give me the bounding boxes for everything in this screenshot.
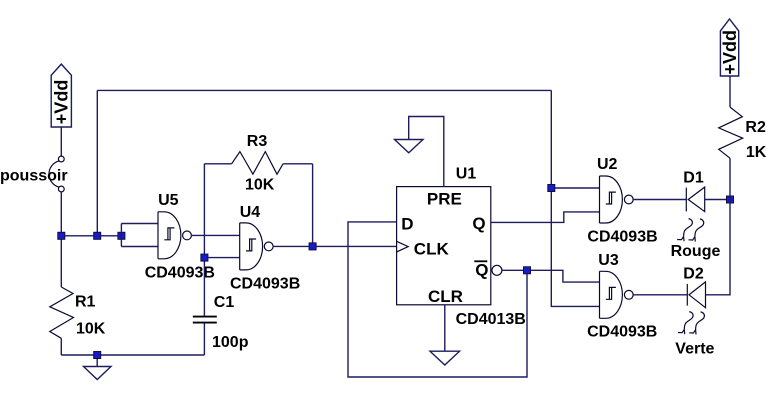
svg-text:U3: U3 <box>598 252 619 269</box>
resistor R1 <box>50 236 106 355</box>
pin Qbar bubble <box>492 265 502 275</box>
svg-text:Q: Q <box>475 261 488 280</box>
led D2 <box>683 265 705 307</box>
ground PRE <box>395 140 424 153</box>
wire R3 right drop <box>312 164 314 247</box>
led D1 light arrows <box>677 219 703 242</box>
wire U2 upper input stub <box>551 187 599 189</box>
svg-text:CD4093B: CD4093B <box>587 323 657 340</box>
push button poussoir <box>49 156 64 192</box>
svg-text:1K: 1K <box>746 144 766 161</box>
wire PRE to ground <box>409 117 444 187</box>
ground (bottom left) <box>84 355 112 380</box>
wire <box>121 246 158 248</box>
pin CLK edge triangle <box>397 241 409 252</box>
svg-text:Q: Q <box>472 214 485 233</box>
wire D1 anode to rail <box>705 199 730 201</box>
nand gate U4 (CD4093B) <box>230 204 300 292</box>
power symbol +Vdd (right) <box>720 19 740 76</box>
wire U3 output to D2 <box>632 294 687 296</box>
nand gate U3 (CD4093B) <box>587 252 657 340</box>
node main-U5 input <box>118 232 125 239</box>
led D1 <box>683 169 704 211</box>
node top-rail to U2 junction <box>548 185 555 192</box>
capacitor C1 <box>193 294 249 355</box>
wire <box>120 224 122 247</box>
svg-text:CD4093B: CD4093B <box>587 228 657 245</box>
resistor R3 <box>204 133 312 194</box>
node U4out-R3 junction <box>309 243 316 250</box>
wire button to main node <box>60 192 62 236</box>
svg-text:10K: 10K <box>245 177 275 194</box>
node main-button <box>58 232 65 239</box>
svg-text:poussoir: poussoir <box>0 167 68 184</box>
wire CLR to ground <box>444 305 446 351</box>
svg-text:CLK: CLK <box>414 240 450 259</box>
svg-text:CD4013B: CD4013B <box>456 311 526 328</box>
node Qbar-feedback junction <box>524 267 531 274</box>
svg-text:10K: 10K <box>76 321 106 338</box>
svg-text:C1: C1 <box>214 294 235 311</box>
node main-riser <box>94 232 101 239</box>
svg-text:+Vdd: +Vdd <box>52 80 72 125</box>
nand gate U2 (CD4093B) <box>587 156 657 245</box>
svg-text:U5: U5 <box>158 192 179 209</box>
svg-text:CLR: CLR <box>428 287 463 306</box>
wire R3/C1 vertical <box>203 164 205 317</box>
wire Vdd to button <box>60 127 62 156</box>
svg-text:R1: R1 <box>75 294 96 311</box>
wire U4 output to CLK <box>273 245 397 247</box>
svg-text:U1: U1 <box>456 165 477 182</box>
svg-text:Verte: Verte <box>675 341 714 358</box>
wire top rail <box>97 89 551 91</box>
wire Qbar-to-D feedback <box>348 222 527 377</box>
power symbol +Vdd (left) <box>51 64 71 127</box>
svg-text:D1: D1 <box>683 169 704 186</box>
svg-text:U4: U4 <box>240 204 261 221</box>
svg-text:D2: D2 <box>683 265 704 282</box>
svg-text:D: D <box>401 214 413 233</box>
node rail-D1 junction <box>727 196 734 203</box>
svg-text:Rouge: Rouge <box>671 243 721 260</box>
wire U5 output <box>191 234 240 236</box>
wire Q output <box>491 212 600 223</box>
wire U2 output to D1 <box>632 199 686 201</box>
wire right drop of top rail <box>551 90 599 306</box>
svg-text:PRE: PRE <box>427 189 462 208</box>
svg-text:+Vdd: +Vdd <box>720 30 740 75</box>
wire Qbar output <box>502 270 600 282</box>
node U5out-R3-C1 junction <box>201 254 208 261</box>
wire main horizontal <box>61 235 121 237</box>
svg-text:U2: U2 <box>597 156 618 173</box>
node bottom ground <box>94 352 101 359</box>
svg-text:100p: 100p <box>212 334 249 351</box>
wire rail down to D2 <box>706 200 731 295</box>
resistor R2 <box>719 76 766 200</box>
wire U4 lower input stub <box>204 257 239 259</box>
ground CLR <box>430 351 460 365</box>
flip-flop U1 (CD4013B) <box>397 165 526 328</box>
wire U5 input tie <box>121 223 158 225</box>
wire riser to top rail <box>96 90 98 235</box>
svg-text:R3: R3 <box>247 133 268 150</box>
svg-text:R2: R2 <box>745 119 766 136</box>
led D2 light arrows <box>678 312 704 335</box>
nand gate U5 (CD4093B) <box>145 192 215 281</box>
wire bottom left <box>61 354 204 356</box>
svg-text:CD4093B: CD4093B <box>230 275 300 292</box>
